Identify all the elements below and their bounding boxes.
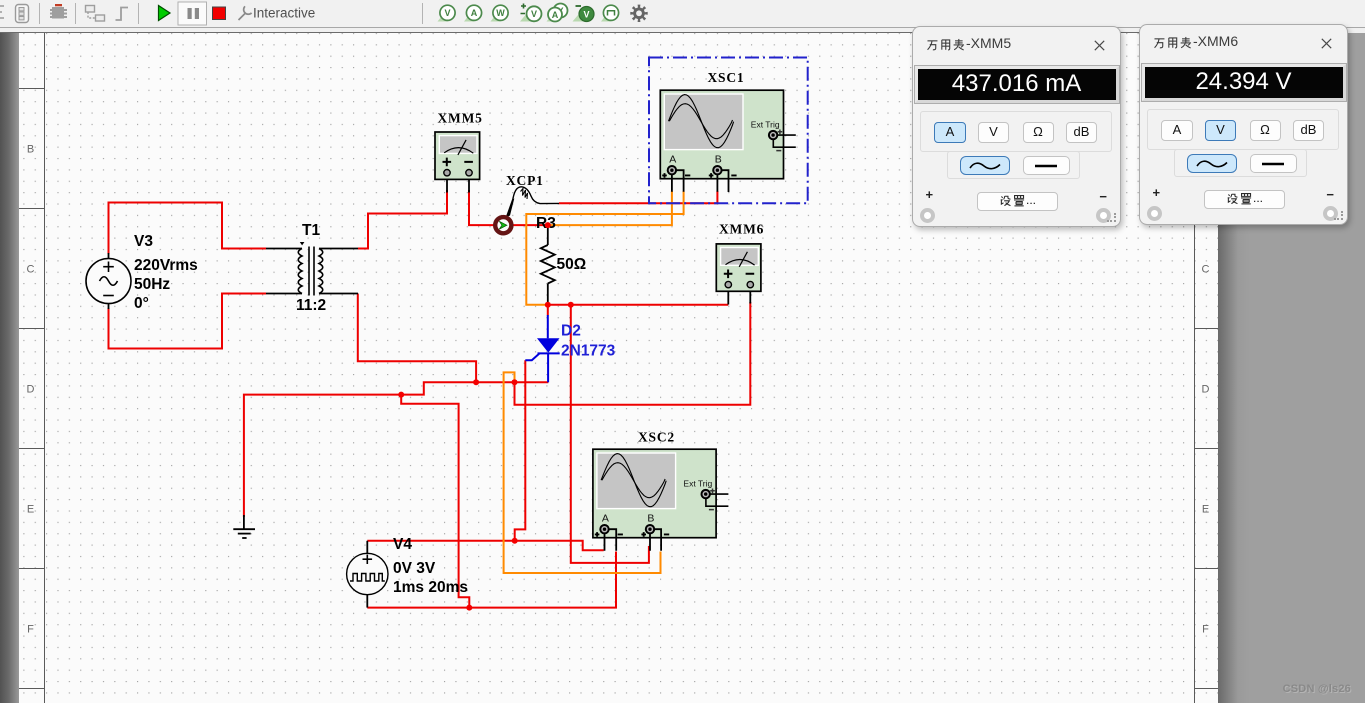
svg-text:D: D bbox=[1202, 384, 1210, 396]
svg-text:E: E bbox=[27, 504, 34, 516]
svg-text:A: A bbox=[471, 8, 478, 18]
svg-text:A: A bbox=[602, 513, 609, 525]
svg-text:Ext Trig: Ext Trig bbox=[751, 120, 780, 130]
svg-text:0V 3V: 0V 3V bbox=[393, 560, 436, 577]
svg-text:D: D bbox=[27, 384, 35, 396]
svg-text:F: F bbox=[1202, 624, 1209, 636]
svg-text:B: B bbox=[715, 154, 722, 166]
svg-text:V3: V3 bbox=[134, 233, 153, 250]
svg-text:11:2: 11:2 bbox=[296, 297, 326, 314]
svg-text:B: B bbox=[27, 144, 34, 156]
svg-text:V4: V4 bbox=[393, 536, 412, 553]
svg-text:V: V bbox=[583, 10, 589, 20]
svg-text:C: C bbox=[1202, 264, 1210, 276]
svg-text:XSC2: XSC2 bbox=[638, 430, 675, 445]
svg-text:50Ω: 50Ω bbox=[557, 256, 587, 273]
svg-text:V: V bbox=[531, 9, 537, 19]
svg-text:F: F bbox=[27, 624, 34, 636]
svg-text:XCP1: XCP1 bbox=[506, 173, 544, 188]
svg-text:E: E bbox=[1202, 504, 1209, 516]
svg-text:Ext Trig: Ext Trig bbox=[683, 479, 712, 489]
svg-text:V: V bbox=[444, 8, 450, 18]
svg-text:0°: 0° bbox=[134, 295, 149, 312]
svg-text:50Hz: 50Hz bbox=[134, 276, 170, 293]
svg-text:XMM5: XMM5 bbox=[438, 111, 483, 126]
svg-text:T1: T1 bbox=[302, 222, 320, 239]
svg-text:A: A bbox=[552, 10, 559, 20]
svg-text:D2: D2 bbox=[561, 323, 581, 340]
svg-text:C: C bbox=[27, 264, 35, 276]
svg-text:A: A bbox=[669, 154, 676, 166]
svg-text:220Vrms: 220Vrms bbox=[134, 257, 198, 274]
svg-text:XMM6: XMM6 bbox=[719, 222, 764, 237]
svg-text:2N1773: 2N1773 bbox=[561, 343, 616, 360]
svg-text:XSC1: XSC1 bbox=[708, 70, 745, 85]
svg-text:1ms 20ms: 1ms 20ms bbox=[393, 579, 468, 596]
svg-text:B: B bbox=[647, 513, 654, 525]
svg-text:W: W bbox=[496, 8, 505, 18]
svg-text:Interactive: Interactive bbox=[253, 6, 315, 21]
